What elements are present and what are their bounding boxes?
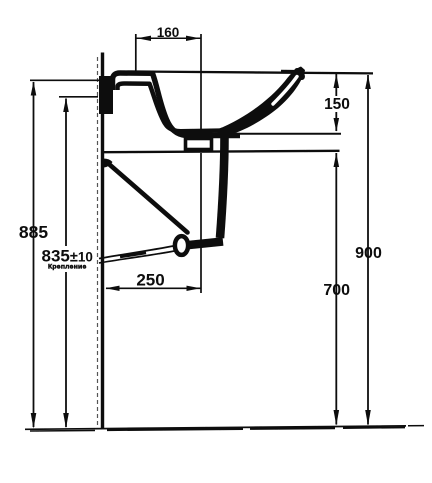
dimension 900 line — [367, 75, 369, 425]
svg-text:160: 160 — [157, 25, 180, 40]
dimension 150 arrow down — [334, 118, 340, 132]
support bracket wall pad — [102, 158, 113, 167]
basin bottom reference line — [215, 133, 341, 135]
floor hatching segment 4 — [343, 426, 405, 429]
drain fitting — [186, 139, 212, 150]
waste pipe curve lower line — [99, 251, 177, 264]
wall dashed surface line — [97, 57, 99, 428]
dimension 900 arrow down — [365, 410, 371, 426]
dimension 835 arrow down — [63, 413, 69, 428]
svg-text:Крепление: Крепление — [48, 264, 87, 271]
dimension 160 arrow left — [137, 36, 151, 41]
dimension 835 line lower segment — [65, 272, 67, 427]
trap outlet ring — [175, 236, 188, 255]
svg-text:250: 250 — [136, 271, 164, 290]
drain level reference line — [103, 151, 340, 152]
trap elbow horizontal — [184, 242, 223, 246]
floor hatching segment 2 — [107, 429, 243, 430]
dimension 160 arrow right — [186, 36, 200, 41]
dimension 885 line — [33, 82, 35, 427]
dimension 250 line — [106, 287, 201, 289]
dimension 885 arrow down — [31, 413, 37, 429]
dimension 900 arrow up — [365, 75, 371, 89]
trap tail pipe — [220, 136, 225, 238]
dimension 700 arrow down — [334, 410, 340, 426]
dimension 885 arrow up — [31, 82, 37, 96]
svg-text:700: 700 — [323, 282, 350, 299]
basin rim inner contour — [118, 84, 227, 132]
floor hatching segment 1 — [30, 430, 95, 433]
dimension 835 extension line top — [59, 96, 98, 98]
dimension 150 line upper segment — [335, 74, 337, 96]
floor dash right end — [408, 425, 424, 427]
dimension 835 arrow up — [63, 98, 69, 112]
dimension 885 extension line top — [30, 79, 100, 81]
basin top line thick part near tip — [281, 70, 302, 74]
dimension 250 arrow left — [106, 286, 120, 291]
basin top waterline — [150, 72, 373, 74]
mounting bracket — [99, 76, 113, 114]
floor line — [25, 426, 406, 429]
dimension 160 line — [137, 37, 201, 39]
basin right crescent body — [217, 67, 305, 138]
svg-text:835±10: 835±10 — [42, 246, 93, 265]
waste pipe curve upper line — [99, 246, 176, 259]
floor hatching segment 3 — [250, 427, 335, 430]
dimension 160 extension line left — [135, 34, 137, 71]
dimension 160 extension line right lower segment — [200, 153, 202, 293]
dimension 250 arrow right — [187, 286, 201, 291]
waste pipe clamp dash — [120, 253, 146, 257]
dimension 700 line — [335, 153, 337, 425]
dimension 150 arrow up — [334, 74, 340, 88]
dimension 835 line upper segment — [65, 99, 67, 247]
basin crescent tip blob — [292, 66, 307, 82]
svg-text:885: 885 — [19, 222, 48, 242]
svg-text:900: 900 — [355, 245, 382, 262]
basin rim outer contour — [113, 73, 241, 136]
dimension 700 arrow up — [334, 153, 340, 167]
support bracket diagonal — [106, 162, 188, 233]
basin crescent white sliver — [273, 77, 297, 105]
wall solid line — [101, 53, 104, 429]
dimension 150 line lower segment — [335, 112, 337, 131]
svg-text:150: 150 — [324, 96, 350, 113]
dimension 160 extension line right upper segment — [200, 34, 202, 138]
